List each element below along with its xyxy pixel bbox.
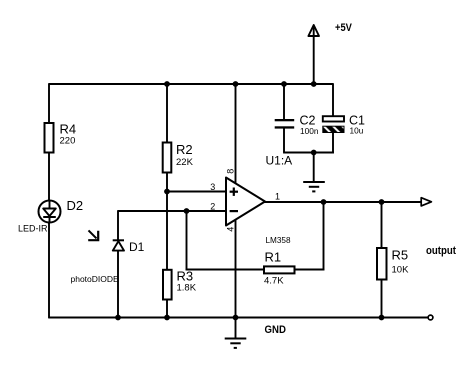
svg-text:output: output bbox=[426, 245, 456, 257]
svg-text:R1: R1 bbox=[265, 250, 282, 265]
wire feedback left bbox=[186, 211, 265, 270]
wire R3 to ground rail bbox=[166, 300, 168, 319]
svg-text:+5V: +5V bbox=[335, 22, 352, 34]
svg-text:8: 8 bbox=[226, 169, 236, 174]
output terminal arrow bbox=[421, 198, 431, 206]
ground decoupling bbox=[303, 153, 325, 192]
junction node +5V rail bbox=[311, 81, 317, 87]
svg-text:R5: R5 bbox=[392, 248, 409, 263]
wire ground rail bbox=[49, 317, 428, 319]
wire C2 top bbox=[283, 84, 285, 120]
wire top rail bbox=[49, 83, 333, 85]
svg-text:10u: 10u bbox=[350, 125, 364, 135]
wire feedback right bbox=[295, 202, 325, 270]
junction node output R5 tap bbox=[379, 199, 385, 205]
svg-text:10K: 10K bbox=[392, 265, 410, 276]
wire op-amp pin 8 bbox=[235, 83, 237, 184]
LED D2 bbox=[18, 198, 83, 233]
wire C1 bottom bbox=[332, 133, 334, 154]
capacitor C2 bbox=[275, 114, 319, 136]
wire R2 to R3 bbox=[166, 173, 168, 271]
junction node R2 rail bbox=[164, 81, 170, 87]
resistor R3 bbox=[163, 269, 197, 300]
svg-text:4: 4 bbox=[226, 227, 236, 232]
svg-text:R4: R4 bbox=[60, 122, 77, 137]
junction node D1 ground bbox=[115, 315, 121, 321]
junction node pin3/R2 bbox=[164, 189, 170, 195]
junction node cap ground bbox=[311, 150, 317, 156]
svg-text:R3: R3 bbox=[177, 269, 194, 284]
resistor R2 bbox=[163, 142, 194, 173]
svg-text:2: 2 bbox=[210, 202, 215, 212]
wire capacitor bottom rail bbox=[283, 152, 334, 154]
svg-text:U1:A: U1:A bbox=[266, 154, 293, 168]
svg-text:4.7K: 4.7K bbox=[264, 276, 284, 287]
junction node output feedback tap bbox=[321, 199, 327, 205]
svg-text:photoDIODE: photoDIODE bbox=[71, 274, 120, 284]
svg-text:3: 3 bbox=[210, 182, 215, 192]
op-amp U1 label LM358 bbox=[266, 236, 291, 245]
junction node C2 rail bbox=[281, 81, 287, 87]
wire output bbox=[264, 201, 421, 203]
wire D1 to ground rail bbox=[117, 251, 119, 319]
op-amp U1 bbox=[210, 169, 280, 232]
svg-text:1.8K: 1.8K bbox=[177, 283, 197, 294]
svg-text:100n: 100n bbox=[300, 126, 319, 136]
svg-text:220: 220 bbox=[60, 136, 76, 147]
junction node R5 ground bbox=[379, 315, 385, 321]
wire R4 top bbox=[48, 83, 50, 124]
svg-text:LED-IR: LED-IR bbox=[18, 223, 48, 233]
wire R4 to D2 bbox=[48, 153, 50, 203]
wire R2 top bbox=[166, 83, 168, 143]
wire D1 top bbox=[117, 210, 119, 240]
ground symbol bbox=[225, 318, 247, 348]
junction node pin8 rail bbox=[233, 81, 239, 87]
terminal ground rail end bbox=[428, 315, 433, 320]
svg-text:D1: D1 bbox=[129, 240, 145, 254]
resistor R1 bbox=[264, 250, 295, 287]
svg-text:1: 1 bbox=[275, 192, 280, 202]
label output bbox=[426, 245, 456, 257]
wire pin 3 input bbox=[167, 191, 226, 193]
wire C2 bottom bbox=[283, 128, 285, 153]
label GND bbox=[265, 324, 287, 336]
power +5V bbox=[308, 22, 352, 85]
svg-text:R2: R2 bbox=[176, 142, 193, 157]
capacitor C1 bbox=[323, 114, 365, 136]
resistor R5 bbox=[377, 248, 409, 280]
svg-text:GND: GND bbox=[265, 324, 287, 336]
wire C1 top bbox=[332, 83, 334, 117]
op-amp U1 label U1:A bbox=[266, 154, 293, 168]
wire op-amp pin 4 bbox=[235, 218, 237, 318]
wire R5 top bbox=[381, 202, 383, 248]
junction node pin4 ground bbox=[233, 315, 239, 321]
wire R5 bottom bbox=[381, 280, 383, 319]
junction node pin2 feedback tap bbox=[184, 208, 190, 214]
svg-text:22K: 22K bbox=[176, 157, 194, 168]
svg-text:LM358: LM358 bbox=[266, 236, 291, 245]
wire pin 2 input bbox=[118, 210, 226, 212]
wire D2 to ground rail bbox=[48, 223, 50, 319]
resistor R4 bbox=[45, 122, 77, 153]
junction node R3 ground bbox=[164, 315, 170, 321]
photodiode D1 bbox=[71, 230, 145, 283]
svg-text:D2: D2 bbox=[67, 198, 84, 213]
